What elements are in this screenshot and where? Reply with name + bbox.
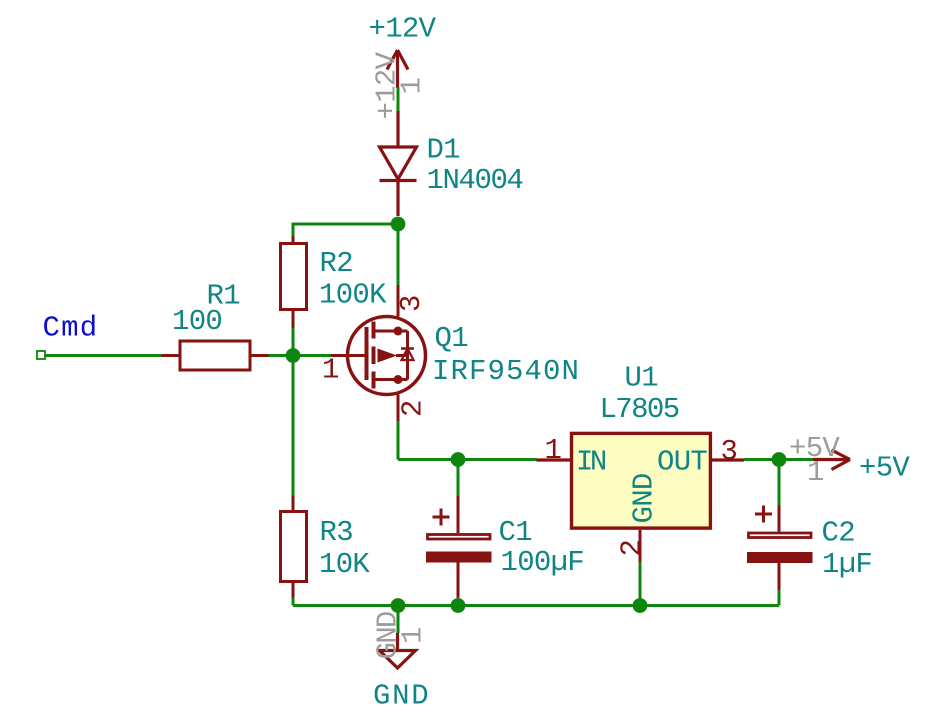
svg-text:2: 2: [397, 400, 430, 417]
wire to U1 IN: [398, 458, 537, 461]
diode D1: [380, 111, 417, 216]
wire R3 to bottom rail: [292, 598, 295, 606]
bottom rail wire: [293, 604, 779, 607]
svg-text:2: 2: [616, 540, 649, 557]
svg-text:1: 1: [545, 434, 562, 467]
U1 pin 3 OUT: [712, 458, 744, 461]
Q1 pin 2: [397, 395, 400, 422]
power +12V: [387, 50, 408, 88]
svg-text:IRF9540N: IRF9540N: [432, 355, 580, 388]
junction R1/R2/R3: [286, 348, 301, 363]
Q1 source dot: [394, 375, 403, 384]
svg-text:R3: R3: [320, 516, 353, 549]
transistor Q1: [331, 317, 426, 395]
svg-text:Cmd: Cmd: [43, 312, 99, 345]
svg-text:1: 1: [322, 354, 339, 387]
ground symbol: [397, 606, 400, 634]
Q1 source arrow: [378, 349, 398, 363]
svg-text:1: 1: [396, 78, 429, 95]
svg-text:R2: R2: [320, 247, 353, 280]
svg-text:U1: U1: [625, 362, 658, 395]
svg-text:100K: 100K: [319, 279, 387, 312]
wire D1 to Q1: [397, 224, 400, 285]
wire node to R3: [292, 356, 295, 496]
U1 pin 2 GND: [639, 530, 642, 562]
wire OUT to +5V: [744, 458, 813, 461]
svg-text:100µF: 100µF: [501, 546, 585, 579]
IC U1 L7805: [572, 433, 711, 528]
svg-text:1µF: 1µF: [822, 548, 872, 581]
C2 plus sign: [755, 506, 772, 523]
resistor R3: [292, 496, 295, 511]
svg-text:1: 1: [807, 456, 824, 489]
svg-text:L7805: L7805: [600, 393, 679, 426]
resistor R1: [162, 354, 181, 357]
svg-text:D1: D1: [427, 134, 460, 167]
junction C1 bottom: [451, 598, 466, 613]
svg-text:10K: 10K: [319, 548, 370, 581]
svg-text:100: 100: [172, 305, 222, 338]
svg-text:3: 3: [721, 435, 738, 468]
junction C2 top: [772, 452, 787, 467]
power +5V: [813, 450, 850, 470]
svg-text:1N4004: 1N4004: [427, 164, 523, 197]
svg-text:C2: C2: [822, 517, 855, 550]
junction at D1 cathode: [391, 217, 406, 232]
capacitor C1: [457, 460, 460, 497]
junction C1 top: [451, 452, 466, 467]
svg-text:3: 3: [395, 295, 428, 312]
capacitor C2: [778, 460, 781, 506]
junction GND stem: [391, 598, 406, 613]
Q1 pin 3: [397, 285, 400, 317]
wire top horizontal: [292, 223, 399, 226]
svg-text:1: 1: [397, 627, 430, 644]
resistor R2: [292, 224, 295, 236]
svg-text:GND: GND: [373, 680, 430, 713]
wire Q1 to IN row: [397, 421, 400, 460]
Q1 drain dot: [394, 327, 403, 336]
C1 plus sign: [433, 509, 450, 526]
wire U1 GND to rail: [639, 562, 642, 606]
svg-text:Q1: Q1: [435, 322, 468, 355]
svg-text:+12V: +12V: [369, 13, 437, 46]
svg-text:IN: IN: [576, 446, 606, 479]
wire R2 to node: [292, 328, 295, 356]
wire Cmd to R1: [46, 354, 162, 357]
unconnected wire end square: [37, 351, 45, 359]
U1 pin 1 IN: [537, 458, 571, 461]
wire R1 to Q1 gate: [269, 354, 332, 357]
svg-text:C1: C1: [499, 516, 532, 549]
junction U1 GND: [633, 598, 648, 613]
wire +12V to D1: [397, 87, 400, 111]
svg-text:OUT: OUT: [657, 446, 707, 479]
svg-text:+5V: +5V: [859, 452, 910, 485]
svg-text:GND: GND: [628, 473, 661, 523]
